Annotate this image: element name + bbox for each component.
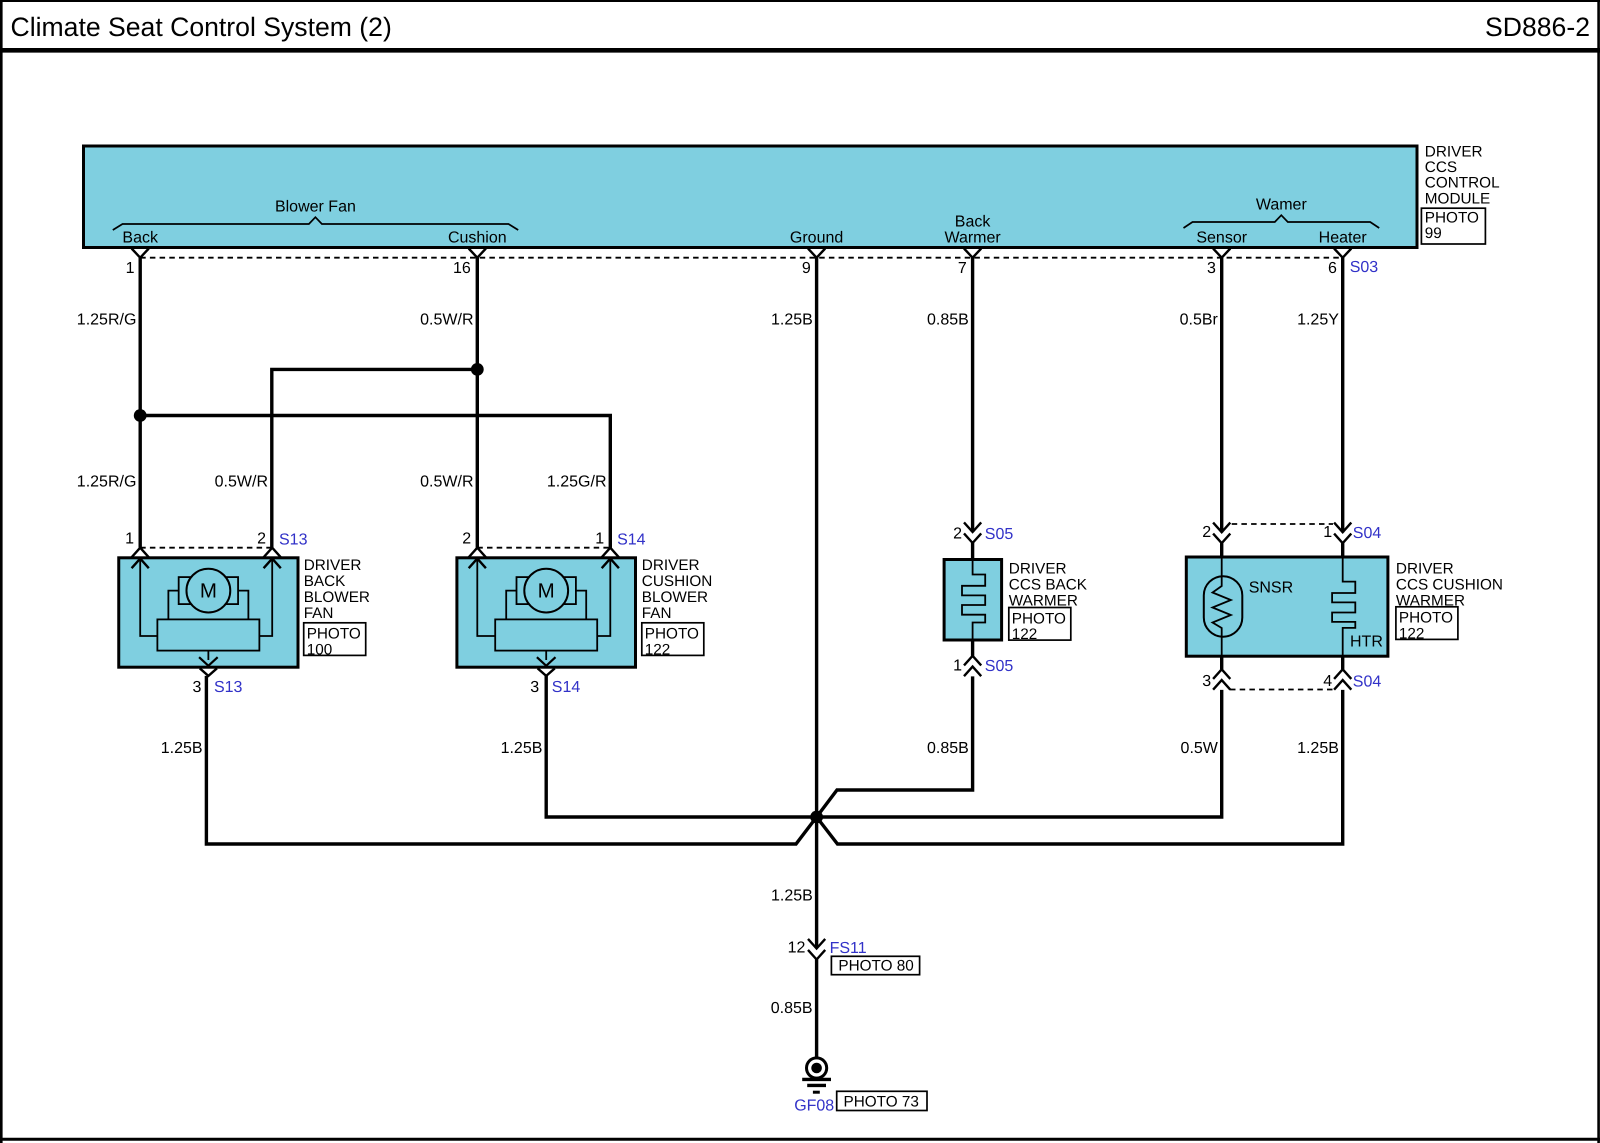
R1 back warmer box	[944, 560, 1002, 641]
svg-text:Climate Seat Control System (2: Climate Seat Control System (2)	[11, 12, 392, 42]
RT1 sensor capsule	[1204, 576, 1243, 637]
page bottom border	[0, 1138, 1600, 1141]
svg-text:0.5W/R: 0.5W/R	[420, 474, 473, 491]
M1 back blower fan: fan internal output arrow	[207, 651, 209, 660]
svg-text:100: 100	[307, 642, 333, 659]
svg-text:S05: S05	[985, 526, 1014, 543]
wire FS11 to ground (0.85B)	[815, 960, 818, 1060]
svg-text:1: 1	[1323, 524, 1332, 541]
M1 back blower fan: motor brush left	[179, 577, 192, 604]
M2 cushion blower fan: S14 pin 3 chevron	[538, 668, 555, 676]
svg-text:PHOTO: PHOTO	[1399, 610, 1453, 627]
svg-text:MODULE: MODULE	[1425, 190, 1490, 207]
svg-text:2: 2	[257, 530, 266, 547]
svg-text:1: 1	[126, 260, 135, 277]
svg-text:S04: S04	[1353, 674, 1382, 691]
svg-text:DRIVER: DRIVER	[304, 557, 362, 574]
FS11 PHOTO 80 box	[831, 956, 919, 974]
svg-text:Blower Fan: Blower Fan	[275, 199, 356, 216]
wire S05 to ground node (0.85B)	[817, 676, 973, 817]
svg-text:16: 16	[453, 260, 471, 277]
svg-text:CCS CUSHION: CCS CUSHION	[1396, 577, 1503, 594]
svg-text:Warmer: Warmer	[944, 230, 1001, 247]
svg-text:1.25R/G: 1.25R/G	[77, 312, 137, 329]
svg-text:CONTROL: CONTROL	[1425, 175, 1500, 192]
wire pin16 to S14 pin2 (0.5W/R)	[476, 258, 479, 548]
svg-text:SNSR: SNSR	[1249, 580, 1293, 597]
M2 cushion blower fan: S14 pin chevrons left	[469, 548, 486, 558]
svg-text:6: 6	[1328, 260, 1337, 277]
svg-text:12: 12	[788, 940, 806, 957]
RT1 sensor wire through	[1221, 557, 1223, 656]
module pin 16 connector chevron	[469, 249, 486, 258]
svg-text:122: 122	[1012, 626, 1038, 643]
svg-text:99: 99	[1425, 225, 1442, 242]
connector FS11 chevrons	[808, 939, 825, 949]
ground PHOTO 73 box	[837, 1091, 927, 1110]
svg-text:1: 1	[125, 530, 134, 547]
M2 cushion blower fan: fan PHOTO box	[642, 623, 704, 656]
M1 back blower fan: motor lead left	[168, 591, 178, 620]
svg-text:SD886-2: SD886-2	[1485, 12, 1590, 42]
svg-text:1.25B: 1.25B	[501, 740, 543, 757]
M2 cushion blower fan: motor lead right	[576, 591, 586, 620]
R1 PHOTO 122 box	[1009, 608, 1071, 641]
svg-text:M: M	[538, 580, 555, 603]
module pin 7 connector chevron	[964, 249, 981, 258]
M2 cushion blower fan: motor brush right	[563, 577, 576, 604]
svg-text:3: 3	[1202, 673, 1211, 690]
svg-text:1.25G/R: 1.25G/R	[547, 474, 607, 491]
M2 cushion blower fan: fan body rectangle	[495, 619, 597, 650]
brace Blower Fan group	[113, 217, 518, 230]
M1 back blower fan: fan box	[119, 558, 298, 667]
M1 back blower fan: S13 pin chevrons right	[264, 548, 281, 558]
ground symbol GF08	[807, 1058, 827, 1078]
svg-text:FAN: FAN	[642, 605, 672, 622]
M1 back blower fan: motor lead right	[238, 591, 248, 620]
module U1 DRIVER CCS CONTROL MODULE box	[84, 146, 1418, 248]
svg-text:1.25B: 1.25B	[771, 312, 813, 329]
svg-text:0.5W: 0.5W	[1181, 740, 1219, 757]
M2 cushion blower fan: fan internal output arrow	[545, 651, 547, 660]
svg-text:2: 2	[462, 530, 471, 547]
wire pin9 ground vertical (1.25B)	[815, 258, 818, 948]
junction dot on pin16 wire	[471, 363, 484, 376]
svg-text:Back: Back	[955, 214, 992, 231]
svg-text:2: 2	[953, 525, 962, 542]
svg-text:1: 1	[953, 658, 962, 675]
svg-text:FS11: FS11	[830, 940, 867, 957]
svg-text:1.25Y: 1.25Y	[1297, 312, 1339, 329]
svg-text:0.5W/R: 0.5W/R	[215, 474, 268, 491]
svg-text:1: 1	[595, 530, 604, 547]
svg-text:Sensor: Sensor	[1196, 230, 1247, 247]
M2 cushion blower fan: motor circle M	[524, 569, 568, 613]
page right border	[1597, 0, 1600, 1143]
wire branch to S14 pin1 (1.25G/R)	[140, 416, 610, 548]
svg-text:PHOTO 80: PHOTO 80	[838, 958, 913, 975]
svg-text:PHOTO: PHOTO	[1425, 209, 1479, 226]
svg-text:S13: S13	[214, 679, 243, 696]
svg-text:FAN: FAN	[304, 605, 334, 622]
svg-text:S05: S05	[985, 658, 1014, 675]
wire S04 pin4 stub	[1341, 656, 1344, 669]
S04 pin2 connector chevrons	[1213, 523, 1230, 533]
module PHOTO 99 box	[1421, 208, 1485, 244]
module pin 6 connector chevron	[1334, 249, 1351, 258]
svg-text:S13: S13	[279, 531, 308, 548]
wire S05 pin2 stub	[971, 543, 974, 560]
svg-text:122: 122	[645, 642, 671, 659]
svg-text:Ground: Ground	[790, 230, 843, 247]
svg-text:CUSHION: CUSHION	[642, 573, 713, 590]
M2 cushion blower fan: fan box	[457, 558, 636, 667]
svg-text:S14: S14	[617, 531, 646, 548]
M2 cushion blower fan: fan internal wire from right pin	[597, 559, 610, 636]
wire pin7 to S05 (0.85B)	[971, 258, 974, 532]
S04 pin1 connector chevrons	[1334, 523, 1351, 533]
S04 top dashed line	[1232, 523, 1333, 525]
page left border	[0, 0, 3, 1143]
M2 cushion blower fan: motor brush left	[517, 577, 530, 604]
S05 pin2 connector chevrons	[964, 522, 981, 532]
svg-text:M: M	[200, 580, 217, 603]
R2 heater element symbol	[1332, 557, 1355, 656]
svg-text:3: 3	[192, 679, 201, 696]
RT1 sensor zigzag	[1213, 576, 1231, 637]
R2 cushion warmer box	[1186, 557, 1388, 656]
svg-text:1.25R/G: 1.25R/G	[77, 474, 137, 491]
svg-text:HTR: HTR	[1350, 633, 1383, 650]
svg-text:CCS: CCS	[1425, 159, 1457, 176]
svg-text:122: 122	[1399, 626, 1425, 643]
svg-text:2: 2	[1202, 524, 1211, 541]
svg-text:DRIVER: DRIVER	[1396, 561, 1454, 578]
svg-text:7: 7	[958, 260, 967, 277]
svg-text:PHOTO: PHOTO	[645, 626, 699, 643]
M1 back blower fan: fan body rectangle	[157, 619, 259, 650]
M2 cushion blower fan: motor lead left	[506, 591, 516, 620]
wire pin6 to S04 pin1 (1.25Y)	[1341, 258, 1344, 533]
svg-text:0.85B: 0.85B	[927, 740, 969, 757]
svg-text:DRIVER: DRIVER	[642, 557, 700, 574]
svg-text:DRIVER: DRIVER	[1009, 561, 1067, 578]
svg-text:PHOTO 73: PHOTO 73	[844, 1094, 919, 1111]
svg-text:4: 4	[1323, 673, 1332, 690]
wire pin3 to S04 pin2 (0.5Br)	[1220, 258, 1223, 533]
module pin 3 connector chevron	[1213, 249, 1230, 258]
module pin 1 connector chevron	[132, 249, 149, 258]
wire S04 pin4 to node (1.25B right)	[817, 690, 1343, 844]
wire S04 pin3 stub	[1220, 656, 1223, 669]
svg-text:0.85B: 0.85B	[927, 312, 969, 329]
S04 pin4 connector chevrons	[1334, 669, 1351, 679]
svg-text:1.25B: 1.25B	[161, 740, 203, 757]
header separator line	[0, 48, 1600, 53]
svg-text:0.5W/R: 0.5W/R	[420, 312, 473, 329]
module pin 9 connector chevron	[808, 249, 825, 258]
M1 back blower fan: connector S13 dashed line	[140, 547, 272, 549]
svg-text:1.25B: 1.25B	[1297, 740, 1339, 757]
svg-text:CCS BACK: CCS BACK	[1009, 577, 1088, 594]
svg-text:S04: S04	[1353, 525, 1382, 542]
M1 back blower fan: fan internal wire from right pin	[259, 559, 272, 636]
svg-text:BLOWER: BLOWER	[304, 589, 370, 606]
M1 back blower fan: motor circle M	[186, 569, 230, 613]
svg-text:BLOWER: BLOWER	[642, 589, 708, 606]
svg-text:Back: Back	[122, 230, 159, 247]
S04 bottom dashed line	[1230, 689, 1333, 691]
wire S04 pin1 stub	[1341, 543, 1344, 558]
svg-text:PHOTO: PHOTO	[307, 626, 361, 643]
svg-text:3: 3	[1207, 260, 1216, 277]
svg-text:1.25B: 1.25B	[771, 887, 813, 904]
wire S13 pin3 to node (1.25B)	[206, 676, 816, 844]
R2 PHOTO 122 box	[1396, 607, 1458, 640]
ground junction node dot	[810, 811, 823, 824]
svg-text:GF08: GF08	[794, 1097, 834, 1114]
junction dot on pin1 wire	[134, 409, 147, 422]
page top border	[0, 0, 1600, 2]
svg-text:9: 9	[802, 260, 811, 277]
svg-text:0.5Br: 0.5Br	[1180, 312, 1219, 329]
svg-text:S03: S03	[1350, 259, 1379, 276]
wire pin1 to S13 pin1 (1.25R/G)	[138, 258, 141, 548]
M2 cushion blower fan: connector S14 dashed line	[477, 547, 610, 549]
wire S04 pin2 stub	[1220, 543, 1223, 558]
svg-text:Cushion: Cushion	[448, 230, 507, 247]
svg-text:0.85B: 0.85B	[771, 1000, 813, 1017]
svg-text:BACK: BACK	[304, 573, 346, 590]
svg-text:DRIVER: DRIVER	[1425, 144, 1483, 161]
R1 heater element symbol	[962, 560, 985, 641]
svg-text:S14: S14	[552, 679, 581, 696]
connector S03 dashed line	[140, 257, 1343, 259]
M1 back blower fan: S13 pin 3 chevron	[200, 668, 217, 676]
svg-text:PHOTO: PHOTO	[1012, 610, 1066, 627]
wire S14 pin3 to node (1.25B)	[546, 676, 816, 817]
M2 cushion blower fan: S14 pin chevrons right	[602, 548, 619, 558]
wire branch to S13 pin2 (0.5W/R)	[272, 369, 478, 547]
S04 pin3 connector chevrons	[1213, 669, 1230, 679]
M1 back blower fan: fan internal wire from left pin	[140, 559, 157, 636]
svg-text:Heater: Heater	[1319, 230, 1368, 247]
M1 back blower fan: S13 pin chevrons left	[132, 548, 149, 558]
M2 cushion blower fan: fan internal wire from left pin	[477, 559, 495, 636]
S05 pin1 connector chevrons	[964, 656, 981, 666]
svg-text:3: 3	[530, 679, 539, 696]
M1 back blower fan: motor brush right	[225, 577, 238, 604]
M1 back blower fan: fan PHOTO box	[304, 623, 366, 656]
svg-text:Wamer: Wamer	[1256, 197, 1308, 214]
wire S05 pin1 stub	[971, 640, 974, 656]
wire S04 pin3 to node (0.5W)	[817, 690, 1222, 817]
brace Wamer group	[1184, 215, 1380, 228]
